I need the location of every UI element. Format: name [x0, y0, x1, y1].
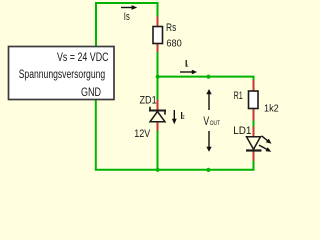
- label IL: [186, 60, 189, 68]
- arrow Vout up: [206, 89, 211, 110]
- node ZD1-ground junction dot: [156, 168, 160, 172]
- wire ZD1 bottom lead (red): [157, 122, 159, 131]
- svg-text:LD1: LD1: [233, 125, 251, 137]
- node Vout+ junction dot: [206, 75, 210, 79]
- wire from supply + up and across to Rs: [96, 3, 158, 47]
- svg-text:Spannungsversorgung: Spannungsversorgung: [19, 69, 106, 81]
- svg-text:1k2: 1k2: [264, 103, 279, 114]
- wire ZD1 top segment (green): [157, 77, 159, 100]
- wire Rs to node A (green): [157, 52, 159, 78]
- svg-text:Is: Is: [124, 11, 130, 23]
- wire mid rail node A to R1 branch: [157, 77, 254, 81]
- arrow Is current: [121, 5, 137, 10]
- wire ZD1 to ground rail (green): [157, 131, 159, 171]
- svg-text:V: V: [203, 114, 209, 128]
- arrow IL current: [180, 70, 197, 75]
- voltage source box Spannungsversorgung: [9, 47, 115, 100]
- wire LD1 to ground rail (green): [253, 161, 255, 170]
- wire R1 top lead (red): [253, 80, 255, 92]
- wire R1 bottom lead (red): [253, 108, 255, 121]
- zener diode ZD1: [149, 107, 166, 122]
- wire between R1 and LD1 (green): [253, 120, 255, 127]
- LED light emission arrow 1: [260, 134, 273, 146]
- label Iz: [181, 112, 185, 121]
- wire ground rail from supply GND: [96, 100, 254, 170]
- svg-text:Rs: Rs: [166, 22, 177, 34]
- LED light emission arrow 2: [258, 143, 272, 154]
- svg-text:680: 680: [166, 38, 182, 49]
- svg-text:Vs = 24 VDC: Vs = 24 VDC: [57, 52, 109, 64]
- arrow Iz current: [172, 110, 177, 124]
- svg-text:GND: GND: [81, 87, 101, 99]
- wire Rs bottom lead (red): [157, 43, 159, 53]
- svg-text:ZD1: ZD1: [140, 95, 157, 107]
- wire Rs top lead (red): [157, 17, 159, 28]
- svg-text:R1: R1: [234, 90, 243, 102]
- svg-text:L: L: [187, 63, 189, 68]
- svg-text:12V: 12V: [134, 128, 150, 140]
- resistor Rs: [153, 27, 163, 44]
- resistor R1: [249, 91, 259, 109]
- node A junction dot: [156, 75, 160, 79]
- wire LD1 top lead (red): [253, 126, 255, 137]
- arrow Vout down: [206, 131, 211, 152]
- svg-text:OUT: OUT: [210, 121, 221, 127]
- LED LD1: [246, 137, 262, 151]
- svg-text:z: z: [183, 115, 185, 121]
- wire ZD1 top lead (red): [157, 100, 159, 111]
- wire LD1 bottom lead (red): [253, 151, 255, 161]
- node Vout- junction dot: [206, 168, 210, 172]
